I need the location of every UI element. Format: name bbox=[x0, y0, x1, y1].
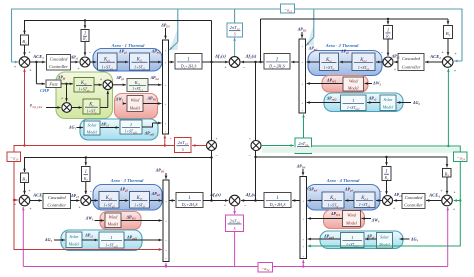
svg-text:Area - 4 Thermal: Area - 4 Thermal bbox=[326, 178, 361, 183]
wire area-2 bar to D2 block bbox=[291, 61, 299, 63]
area-4 thermal subsystem box bbox=[306, 185, 380, 211]
block CHP Kc bbox=[83, 99, 100, 114]
wire tie12 drop to area-2 bar (diagonal) bbox=[306, 25, 313, 46]
wire dW1 into wind model bbox=[124, 103, 126, 105]
svg-text:Model: Model bbox=[347, 85, 360, 90]
wire tie34 up into area-4 bar bottom bbox=[302, 260, 304, 267]
block solar lag area 3 bbox=[99, 232, 124, 248]
wire junction to 2piT24 block bbox=[261, 145, 294, 147]
wire area-3 bar to D3 block bbox=[169, 200, 175, 202]
svg-text:Kt1​: Kt1​ bbox=[136, 58, 143, 63]
wire tie34 up into ACE4 bottom bbox=[447, 207, 449, 267]
wire 1/R2 to governor junction bbox=[387, 39, 389, 56]
wire tie24 distribution (green) bbox=[312, 146, 461, 152]
block wind model area 4 bbox=[343, 211, 361, 227]
wire -a13 output down to ACE3 and area-3 bar bbox=[14, 162, 162, 250]
gain block -a24 bbox=[454, 152, 468, 162]
block solar lag area 1 bbox=[120, 120, 142, 134]
summing junction governor ref area 2 bbox=[383, 57, 393, 67]
svg-text:Kt3​: Kt3​ bbox=[136, 196, 143, 201]
svg-text:Wind: Wind bbox=[131, 98, 141, 103]
wire solar to area-4 bar bbox=[308, 238, 341, 240]
svg-text:1: 1 bbox=[385, 170, 387, 175]
wire tie12 drop to area-1 bar (diagonal) bbox=[170, 28, 178, 50]
wire D2 to f1-f2 junction bbox=[241, 61, 264, 63]
pink wind subsystem box area 2 bbox=[322, 76, 368, 93]
block power system D3 bbox=[176, 193, 203, 208]
svg-text:1: 1 bbox=[84, 32, 86, 37]
wire summing junction f1-f2 up into tie12 block bbox=[234, 38, 236, 57]
block 1/R4 bbox=[382, 167, 391, 181]
wire Kt4 to area-4 bar bbox=[308, 200, 322, 202]
wire 1/R4 to governor junction area 4 bbox=[386, 181, 388, 195]
controller block area 3 bbox=[43, 194, 71, 209]
block solar model area 2 bbox=[380, 95, 396, 111]
wire tie34 up into ACE3 bottom bbox=[22, 207, 24, 267]
wire dG4 into solar model area 4 bbox=[400, 238, 410, 240]
pink wind subsystem box area 3 bbox=[100, 212, 141, 230]
wire drop to 1/R3 bbox=[85, 158, 87, 166]
block governor Kg2 bbox=[352, 53, 375, 71]
svg-text:CHP: CHP bbox=[40, 88, 49, 93]
wire solar to area-2 bar bbox=[307, 102, 341, 104]
wire tie12 into ACE2 bbox=[454, 60, 462, 62]
transfer block 2piT34/S bbox=[226, 215, 244, 232]
svg-text:Model: Model bbox=[345, 221, 358, 226]
summing junction CHP output bbox=[103, 80, 113, 90]
svg-text:1: 1 bbox=[85, 170, 87, 175]
svg-text:Cascaded: Cascaded bbox=[402, 56, 420, 61]
wire delta-f2 / delta-f4 vertical x=256 bbox=[260, 19, 262, 62]
area-1 summing bar bbox=[163, 40, 169, 134]
wire B4 to ACE4 bbox=[446, 177, 448, 194]
svg-text:1: 1 bbox=[387, 28, 389, 33]
wire tie12 into ACE1 bbox=[12, 61, 19, 63]
wire drop to 1/R4 bbox=[386, 157, 388, 165]
svg-text:Controller: Controller bbox=[47, 203, 66, 208]
svg-text:Model: Model bbox=[382, 105, 395, 110]
block turbine Kt1 bbox=[130, 53, 150, 70]
wire B1 to ACE1 junction bbox=[24, 45, 26, 56]
wire solar model to lag block area 2 bbox=[367, 102, 380, 104]
block governor Kg4 bbox=[354, 192, 375, 208]
wire wind model to area-2 bar bbox=[307, 83, 343, 85]
svg-text:1: 1 bbox=[188, 195, 191, 201]
svg-text:1: 1 bbox=[187, 56, 190, 62]
wire CHP junction to Kc block bbox=[72, 107, 82, 109]
svg-text:S: S bbox=[234, 227, 236, 231]
wire drop to B2 bbox=[447, 19, 449, 24]
summing junction delta-f3 minus delta-f4 bbox=[229, 195, 240, 206]
green CHP subsystem box bbox=[56, 72, 113, 119]
svg-text:+: + bbox=[170, 137, 172, 141]
wire Kg3 to Kt3 bbox=[119, 200, 128, 202]
wire solar model to lag block area 3 bbox=[82, 239, 98, 241]
block CHP turbine Kr1 bbox=[127, 79, 148, 92]
wire ACE3 to controller area 3 bbox=[30, 200, 42, 202]
gain block -a34 bbox=[258, 263, 273, 273]
svg-text:S: S bbox=[234, 32, 236, 36]
controller block area 4 bbox=[402, 194, 425, 209]
block power system D1 bbox=[175, 54, 202, 70]
wire drop to 1/R2 bbox=[387, 19, 389, 24]
wire area-1 frequency feedback top line bbox=[25, 21, 212, 35]
block solar model area 4 bbox=[377, 233, 393, 249]
wire B3 to ACE3 bbox=[24, 183, 26, 195]
svg-text:Kg1​: Kg1​ bbox=[103, 58, 111, 63]
wire wind model to area-1 bar bbox=[143, 103, 161, 105]
summing junction governor ref area 4 bbox=[383, 196, 393, 206]
wire load disturbance dPd2 into bar bbox=[301, 32, 303, 38]
block governor Kg3 bbox=[99, 192, 119, 209]
svg-text:Kgc​: Kgc​ bbox=[80, 81, 88, 86]
wire solar to area-1 bar bbox=[142, 123, 153, 127]
wire branch into ACE4 right bbox=[454, 200, 461, 202]
wire area-4 bar to D4 block bbox=[292, 200, 300, 202]
svg-text:1: 1 bbox=[110, 235, 112, 240]
block turbine Kt3 bbox=[130, 192, 150, 209]
block solar lag area 2 bbox=[341, 95, 367, 111]
summing junction ACE2 bbox=[442, 57, 453, 68]
wire controller to governor junction area 2 bbox=[394, 61, 398, 63]
summing junction governor ref area 1 bbox=[80, 57, 90, 67]
wire Kg4 to Kt4 bbox=[345, 200, 354, 202]
cyan solar subsystem box area 3 bbox=[61, 230, 142, 251]
wire controller to governor junction area 4 bbox=[394, 200, 402, 202]
svg-text:Area - 1 Thermal: Area - 1 Thermal bbox=[111, 43, 146, 48]
svg-text:Fuzz: Fuzz bbox=[48, 82, 58, 87]
wire Kc up into CHP output junction bbox=[100, 107, 108, 109]
svg-text:1: 1 bbox=[352, 98, 354, 103]
block B4 bbox=[443, 169, 452, 178]
wire governor junction into Kg2 bbox=[376, 61, 383, 63]
wire tie24 up into ACE2 bottom bbox=[447, 69, 449, 146]
wire delta-f1 / delta-f3 vertical x=211.5 bbox=[211, 21, 213, 141]
block solar model area 1 bbox=[84, 121, 100, 135]
summing junction CHP bbox=[62, 103, 72, 113]
wire tie13 into area-3 bar (overlay) bbox=[14, 249, 161, 251]
summing junction ACE1 bbox=[19, 57, 30, 68]
wire dW3 into wind model area 3 bbox=[95, 220, 104, 222]
wire dW2 into wind model area 2 bbox=[365, 83, 372, 85]
wire solar model to solar lag block bbox=[100, 127, 119, 129]
wire reheat to area-1 bar bbox=[148, 84, 161, 86]
block wind model area 1 bbox=[127, 96, 143, 112]
svg-text:Wind: Wind bbox=[349, 78, 359, 83]
block fuzzy controller bbox=[46, 80, 61, 88]
wire area-3 frequency feedback line bbox=[25, 158, 212, 173]
block wind model area 2 bbox=[343, 77, 364, 91]
pink wind subsystem box area 1 bbox=[115, 94, 158, 119]
wire tie34 up into area-3 bar bottom bbox=[165, 263, 167, 267]
summing junction delta-f1 minus delta-f3 bbox=[207, 141, 217, 151]
wire Kg2 to Kt2 bbox=[340, 61, 352, 63]
area-1 thermal subsystem box bbox=[93, 49, 162, 72]
wire load disturbance dPd1 into bar bbox=[165, 28, 167, 39]
cyan solar subsystem box area 4 bbox=[320, 231, 403, 249]
block CHP governor Kgc bbox=[74, 78, 94, 93]
wire ACE4 to controller area 4 bbox=[426, 200, 442, 202]
wire tie-line 12 top distribution (teal) bbox=[12, 9, 463, 62]
wire CHP output junction to reheat block bbox=[113, 84, 126, 86]
wire tie13 up into area-1 bar bottom bbox=[164, 135, 166, 145]
wire Kt1 to area-1 bar bbox=[150, 61, 162, 63]
svg-text:Model: Model bbox=[107, 222, 120, 227]
block power system D4 bbox=[264, 193, 291, 208]
wire area-4 frequency feedback line bbox=[256, 157, 447, 167]
svg-text:1: 1 bbox=[351, 235, 353, 240]
svg-text:1: 1 bbox=[276, 56, 279, 62]
summing junction ACE4 bbox=[442, 195, 453, 206]
block 1/R2 bbox=[384, 26, 393, 40]
wire tie13 up into ACE1 bottom bbox=[24, 69, 26, 146]
wire 1/R3 to governor junction area 3 bbox=[85, 182, 87, 195]
svg-text:Area - 2 Thermal: Area - 2 Thermal bbox=[325, 43, 360, 48]
controller block area 2 bbox=[398, 54, 424, 71]
wire B2 to ACE2 bbox=[447, 39, 449, 56]
svg-text:Kt2​: Kt2​ bbox=[325, 58, 332, 63]
wire wind model to area-4 bar bbox=[308, 218, 343, 220]
svg-text:Kc​: Kc​ bbox=[88, 103, 94, 108]
wire dG1 into solar model bbox=[77, 127, 83, 129]
summing junction ACE3 bbox=[19, 195, 30, 206]
transfer block 2piT12/S bbox=[227, 23, 243, 37]
summing junction f1 - f2 bbox=[229, 57, 240, 68]
block B2 bbox=[444, 26, 453, 39]
block B3 bbox=[21, 173, 29, 183]
wire ACE1 branch down to fuzzy controller bbox=[35, 62, 37, 84]
svg-text:Kg4​: Kg4​ bbox=[360, 196, 368, 201]
block 1/R1 bbox=[81, 30, 89, 42]
svg-text:Cascaded: Cascaded bbox=[405, 195, 423, 200]
block wind model area 3 bbox=[105, 213, 121, 228]
svg-text:Model: Model bbox=[86, 129, 99, 134]
wire D3 to f3-f4 junction bbox=[203, 200, 228, 202]
wire solar to area-3 bar bbox=[124, 239, 162, 241]
summing junction governor ref area 3 bbox=[81, 196, 91, 206]
wire fuzzy branch down to CHP junction bbox=[66, 84, 68, 102]
wire D4 to f3-f4 junction bbox=[241, 200, 264, 202]
area-2 thermal subsystem box bbox=[308, 51, 382, 76]
svg-text:1: 1 bbox=[130, 122, 132, 127]
block 1/R3 bbox=[82, 167, 91, 182]
wire governor junction into Kg3 bbox=[91, 200, 98, 202]
wire Kt2 to area-2 bar bbox=[307, 61, 320, 63]
wire tie24 distribution halo bbox=[262, 147, 460, 153]
wire governor junction into thermal bbox=[90, 61, 96, 63]
gain block -a12 bbox=[281, 4, 295, 13]
wire ACE1 to cascaded controller bbox=[30, 61, 45, 63]
block solar model area 3 bbox=[66, 232, 82, 248]
wire fuzzy to CHP governor bbox=[61, 83, 73, 85]
wire area-2 frequency feedback top line bbox=[261, 18, 449, 20]
block governor Kg1 bbox=[98, 53, 118, 70]
svg-text:1: 1 bbox=[276, 195, 279, 201]
svg-text:Solar: Solar bbox=[87, 122, 96, 127]
svg-text:S: S bbox=[182, 148, 184, 152]
wire tie24 into area-4 bar (overlay) bbox=[309, 245, 460, 247]
cyan solar subsystem box area 1 bbox=[80, 119, 158, 140]
block turbine Kt2 bbox=[320, 53, 339, 71]
gain block -a13 bbox=[7, 152, 21, 162]
wire dG2 into solar model area 2 bbox=[397, 102, 411, 104]
svg-text:Controller: Controller bbox=[49, 64, 68, 69]
wire area-1 bar to D1 block bbox=[169, 61, 174, 63]
wire controller to governor junction bbox=[71, 61, 79, 63]
cyan solar subsystem box area 2 bbox=[324, 93, 403, 112]
svg-text:Controller: Controller bbox=[402, 64, 421, 69]
wire load disturbance dPd3 into bar bbox=[165, 173, 167, 179]
wire tie12 block to top line bbox=[234, 9, 236, 23]
wire Kt3 to area-3 bar bbox=[150, 200, 162, 202]
area-4 summing bar bbox=[300, 177, 307, 259]
svg-text:Controller: Controller bbox=[404, 203, 423, 208]
svg-text:Solar: Solar bbox=[69, 234, 78, 239]
transfer block 2piT24/S bbox=[295, 138, 312, 154]
wire Kgc to CHP output junction bbox=[94, 84, 102, 86]
wire dW4 into wind model area 4 bbox=[362, 218, 371, 220]
block power system D2 bbox=[264, 54, 290, 70]
wire D1 to f1-f2 junction bbox=[202, 61, 228, 63]
svg-text:Solar: Solar bbox=[380, 234, 389, 239]
area-2 summing bar bbox=[299, 39, 306, 113]
svg-text:Model: Model bbox=[129, 106, 142, 111]
wire wind model to area-3 bar bbox=[121, 220, 162, 222]
wire drop to 1/R1 bbox=[84, 21, 86, 29]
svg-text:Kg2​: Kg2​ bbox=[359, 58, 367, 63]
block solar lag area 4 bbox=[341, 233, 365, 248]
wire branch into ACE3 left bbox=[14, 199, 18, 201]
area-3 summing bar bbox=[163, 180, 169, 262]
wire tie24 up into area-2 bar bottom bbox=[303, 114, 305, 138]
wire tie34 distribution (magenta) bbox=[23, 232, 234, 267]
summing junction delta-f2 minus delta-f4 bbox=[251, 141, 261, 151]
wire ACE2 to controller area 2 bbox=[425, 61, 442, 63]
wire junction to 2piT13 block bbox=[192, 145, 206, 147]
wire junction down into 2piT34 block bbox=[234, 206, 236, 214]
svg-text:Cascaded: Cascaded bbox=[50, 56, 68, 61]
svg-text:Wind: Wind bbox=[109, 214, 119, 219]
wire Pchp_plan into CHP junction bbox=[46, 107, 61, 109]
wire controller to governor junction area 3 bbox=[71, 200, 80, 202]
svg-text:Wind: Wind bbox=[347, 213, 357, 218]
transfer block 2piT13/S bbox=[175, 138, 192, 153]
wire dG3 into solar model area 3 bbox=[54, 239, 65, 241]
area-3 thermal subsystem box bbox=[93, 185, 162, 211]
block turbine Kt4 bbox=[322, 192, 344, 208]
wire load disturbance dPd4 into bar bbox=[302, 169, 304, 175]
wire solar model to lag block area 4 bbox=[365, 238, 376, 240]
svg-text:Model: Model bbox=[68, 242, 81, 247]
svg-text:Kt4​: Kt4​ bbox=[329, 196, 336, 201]
wire governor junction into Kg4 bbox=[376, 200, 382, 202]
pink wind subsystem box area 4 bbox=[324, 210, 365, 229]
svg-text:Solar: Solar bbox=[383, 97, 392, 102]
wire tie13 distribution (red) bbox=[14, 146, 175, 152]
svg-text:Cascaded: Cascaded bbox=[48, 195, 66, 200]
controller block area 1 bbox=[47, 55, 71, 71]
wire Kg1 to Kt1 bbox=[117, 61, 128, 63]
block B1 bbox=[21, 35, 29, 45]
svg-text:Area - 3 Thermal: Area - 3 Thermal bbox=[110, 178, 145, 183]
svg-text:Kg3​: Kg3​ bbox=[105, 196, 113, 201]
wire 1/R1 to governor junction (minus) bbox=[84, 42, 86, 56]
wire -a24 down to ACE4 and area-4 bar bbox=[308, 162, 461, 247]
